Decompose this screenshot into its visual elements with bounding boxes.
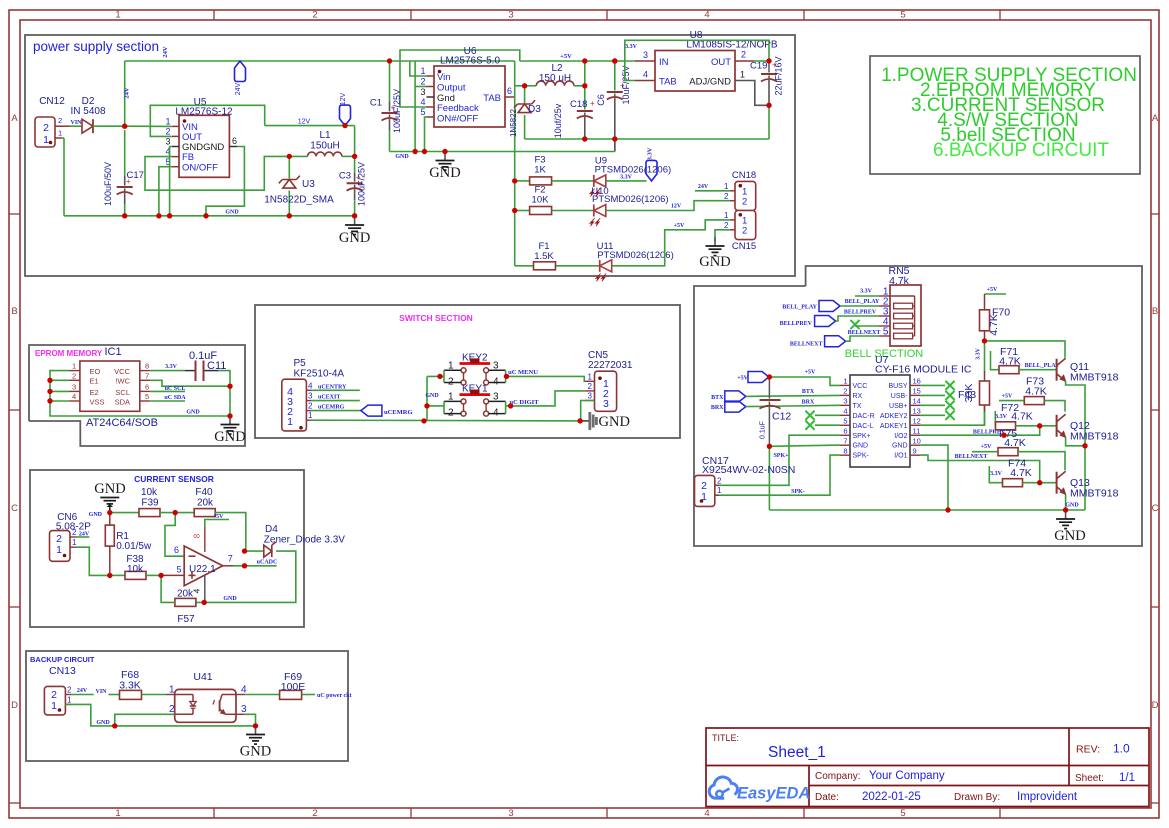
wire key2 left bbox=[427, 375, 444, 377]
svg-text:6: 6 bbox=[507, 86, 512, 96]
wire Q11 collector bbox=[985, 341, 1066, 358]
svg-text:!WC: !WC bbox=[115, 377, 130, 386]
fuse U11 PTSMD026 bbox=[596, 241, 674, 282]
label D2 bbox=[70, 96, 105, 117]
junction bbox=[227, 384, 232, 389]
svg-text:Improvident: Improvident bbox=[1017, 791, 1078, 803]
net flag BRX bbox=[711, 401, 746, 412]
wire gnd pin7 bbox=[769, 445, 840, 446]
svg-text:1: 1 bbox=[51, 700, 57, 712]
wire bbox=[606, 180, 647, 182]
svg-text:SPK-: SPK- bbox=[853, 453, 870, 460]
svg-text:BUSY: BUSY bbox=[888, 383, 907, 390]
wire bbox=[170, 147, 172, 216]
svg-text:GND: GND bbox=[96, 720, 110, 726]
svg-text:CY-F16 MODULE IC: CY-F16 MODULE IC bbox=[875, 364, 972, 376]
svg-text:16: 16 bbox=[913, 377, 921, 386]
svg-text:24V: 24V bbox=[124, 87, 131, 99]
svg-text:BELL_PLAY: BELL_PLAY bbox=[782, 305, 817, 311]
svg-text:3: 3 bbox=[508, 10, 513, 21]
svg-text:D3: D3 bbox=[528, 104, 541, 115]
inductor L1 bbox=[289, 130, 354, 156]
capacitor C18 bbox=[553, 88, 595, 139]
svg-text:uC DIGIT: uC DIGIT bbox=[509, 399, 539, 406]
svg-text:C1: C1 bbox=[370, 98, 382, 109]
svg-text:BTX: BTX bbox=[802, 389, 815, 395]
wire eprom pins tie bbox=[50, 371, 230, 416]
svg-text:20k: 20k bbox=[197, 498, 214, 509]
svg-text:+5V: +5V bbox=[987, 287, 998, 293]
wire U5 pin6 path bbox=[206, 147, 244, 216]
wire 12V to CN18 bbox=[606, 201, 730, 211]
svg-text:IN 5408: IN 5408 bbox=[70, 106, 105, 117]
svg-text:KF2510-4A: KF2510-4A bbox=[294, 369, 345, 380]
resistor F74 4.7K bbox=[1003, 458, 1032, 487]
svg-text:5: 5 bbox=[420, 107, 425, 117]
op-amp U22.1 bbox=[184, 546, 223, 586]
wire bbox=[515, 85, 525, 87]
wire pin7 bbox=[150, 380, 230, 386]
junction bbox=[1082, 443, 1087, 448]
svg-text:A: A bbox=[1152, 113, 1159, 124]
svg-text:15: 15 bbox=[913, 387, 921, 396]
wire bbox=[233, 565, 277, 567]
wire +5V to CN15 bbox=[612, 220, 730, 266]
wire key1 left bbox=[427, 405, 444, 407]
svg-text:10k: 10k bbox=[127, 564, 144, 575]
svg-text:7: 7 bbox=[843, 436, 847, 445]
svg-text:0.1uF: 0.1uF bbox=[760, 421, 767, 439]
label CN5 bbox=[588, 350, 633, 371]
junction bbox=[982, 338, 987, 343]
ground top bbox=[94, 481, 125, 513]
wire bbox=[580, 420, 589, 422]
wire bbox=[160, 512, 194, 514]
junction bbox=[612, 58, 617, 63]
wire bbox=[109, 694, 120, 696]
svg-text:F57: F57 bbox=[177, 614, 195, 625]
wire Q11 emitter bbox=[1066, 381, 1085, 510]
wire +5V F70 bbox=[985, 293, 1007, 295]
svg-text:GND: GND bbox=[429, 165, 460, 181]
svg-text:0.01/5w: 0.01/5w bbox=[116, 541, 152, 552]
svg-text:GND: GND bbox=[699, 254, 730, 270]
svg-text:L1: L1 bbox=[319, 130, 331, 141]
wire bbox=[50, 390, 70, 392]
wire bbox=[515, 180, 530, 182]
svg-text:2022-01-25: 2022-01-25 bbox=[862, 791, 921, 803]
wire output bbox=[223, 565, 233, 567]
svg-text:CURRENT SENSOR: CURRENT SENSOR bbox=[134, 474, 214, 484]
svg-text:uCEMRG: uCEMRG bbox=[384, 409, 413, 416]
svg-text:3: 3 bbox=[72, 382, 76, 391]
junction bbox=[1063, 507, 1068, 512]
wire 24V to CN18 bbox=[695, 190, 730, 192]
svg-text:MMBT918: MMBT918 bbox=[1070, 488, 1119, 500]
junction bbox=[437, 374, 442, 379]
svg-text:1N5822D_SMA: 1N5822D_SMA bbox=[264, 195, 334, 206]
svg-text:GND: GND bbox=[223, 596, 237, 602]
svg-text:3: 3 bbox=[493, 360, 499, 371]
svg-text:+5V: +5V bbox=[1002, 394, 1013, 400]
junction bbox=[156, 213, 161, 218]
svg-text:1: 1 bbox=[72, 362, 76, 371]
svg-text:7: 7 bbox=[228, 554, 233, 564]
wire IO2 BELLPREV bbox=[920, 426, 1040, 435]
IC U5 LM2576S-12 bbox=[165, 97, 237, 177]
resistor F75 4.7K bbox=[998, 428, 1026, 456]
wire bbox=[556, 265, 600, 267]
wire bbox=[768, 105, 770, 139]
svg-text:4.7K: 4.7K bbox=[1011, 410, 1033, 422]
wire bbox=[768, 446, 770, 510]
svg-text:4: 4 bbox=[493, 408, 499, 419]
svg-text:4.7K: 4.7K bbox=[1025, 386, 1047, 398]
op-amp power pins bbox=[193, 514, 230, 602]
capacitor C17 bbox=[103, 130, 144, 216]
svg-text:ON#/OFF: ON#/OFF bbox=[437, 113, 478, 124]
svg-text:150 uH: 150 uH bbox=[539, 73, 571, 84]
svg-text:EO: EO bbox=[90, 367, 101, 376]
junction bbox=[582, 58, 587, 63]
wire ADKEY1 to F43 bbox=[920, 405, 985, 425]
svg-text:F39: F39 bbox=[141, 498, 159, 509]
wire key2 right uC MENU bbox=[506, 376, 585, 381]
wire bbox=[354, 126, 356, 157]
wire bbox=[161, 575, 175, 602]
wire bbox=[245, 694, 279, 696]
diode D3 1N5822 bbox=[509, 86, 541, 139]
wire VIN bbox=[125, 125, 172, 127]
wire key1 right uC DIGIT bbox=[506, 391, 585, 406]
svg-text:IC1: IC1 bbox=[105, 346, 122, 358]
resistor F43 33K bbox=[958, 371, 990, 425]
svg-text:D: D bbox=[11, 700, 18, 711]
no-connect cross bbox=[945, 391, 954, 400]
svg-text:2: 2 bbox=[312, 808, 317, 819]
svg-text:2: 2 bbox=[308, 402, 313, 411]
wire bbox=[70, 125, 82, 127]
svg-text:IN: IN bbox=[659, 57, 669, 68]
IC U8 LM1085IS-12 bbox=[635, 30, 778, 91]
wire bbox=[245, 714, 255, 726]
svg-text:24V: 24V bbox=[79, 532, 90, 538]
resistor F3 1K bbox=[530, 155, 552, 185]
svg-text:1.5K: 1.5K bbox=[534, 251, 554, 262]
switch KEY1 bbox=[444, 384, 506, 419]
diode D2 bbox=[82, 119, 93, 133]
wire bbox=[846, 336, 879, 341]
svg-text:4: 4 bbox=[308, 381, 313, 390]
no-connect cross bbox=[805, 421, 814, 430]
svg-text:U22.1: U22.1 bbox=[189, 564, 216, 575]
wire bbox=[414, 61, 416, 152]
svg-text:3.3V: 3.3V bbox=[647, 147, 654, 160]
svg-text:3: 3 bbox=[308, 392, 313, 401]
wire bbox=[76, 536, 89, 538]
svg-text:6.BACKUP CIRCUIT: 6.BACKUP CIRCUIT bbox=[933, 140, 1109, 161]
svg-text:GND: GND bbox=[94, 481, 125, 497]
resistor F2 10K bbox=[530, 185, 552, 215]
junction bbox=[767, 374, 772, 379]
svg-text:1: 1 bbox=[72, 538, 77, 547]
svg-text:1: 1 bbox=[724, 211, 729, 220]
wire bottom loop bbox=[525, 138, 769, 140]
resistor F39 10k bbox=[139, 487, 160, 517]
svg-text:SPK-: SPK- bbox=[791, 489, 805, 495]
wire bbox=[515, 265, 533, 267]
svg-text:EPROM MEMORY: EPROM MEMORY bbox=[35, 349, 103, 358]
wire Q13 emitter bbox=[1065, 494, 1067, 510]
junction bbox=[122, 124, 127, 129]
svg-text:PTSMD026(1206): PTSMD026(1206) bbox=[592, 194, 669, 205]
svg-text:SWITCH SECTION: SWITCH SECTION bbox=[399, 313, 473, 323]
wire bbox=[142, 694, 166, 696]
wire SPK+ path bbox=[715, 435, 840, 485]
wire bell gnd rail bbox=[769, 509, 1085, 511]
svg-text:GND: GND bbox=[1065, 503, 1079, 509]
wire bbox=[400, 106, 427, 108]
junction bbox=[612, 58, 617, 63]
wire CN13 pin1 gnd bbox=[65, 704, 255, 726]
svg-text:1: 1 bbox=[56, 544, 62, 556]
wire bbox=[415, 86, 426, 88]
svg-text:2: 2 bbox=[843, 387, 847, 396]
IC U7 CY-F16 bbox=[840, 375, 921, 467]
svg-text:+5V: +5V bbox=[737, 376, 748, 382]
svg-text:Sheet_1: Sheet_1 bbox=[768, 744, 826, 761]
label U7 bbox=[875, 354, 972, 376]
junction bbox=[522, 83, 527, 88]
junction bbox=[512, 178, 517, 183]
svg-text:GND: GND bbox=[225, 210, 239, 216]
svg-text:1: 1 bbox=[115, 10, 120, 21]
wire bbox=[63, 138, 65, 216]
net flag uCEMRG bbox=[361, 405, 413, 416]
wire bbox=[110, 512, 140, 514]
junction bbox=[122, 213, 127, 218]
wire uCEMRG bbox=[311, 410, 361, 412]
svg-text:3: 3 bbox=[643, 50, 648, 60]
svg-text:GND: GND bbox=[1054, 528, 1085, 544]
svg-text:Company:: Company: bbox=[815, 771, 861, 782]
backup circuit box bbox=[26, 651, 348, 761]
svg-text:EasyEDA: EasyEDA bbox=[737, 785, 810, 803]
svg-text:VCC: VCC bbox=[114, 367, 130, 376]
svg-text:3: 3 bbox=[493, 391, 499, 402]
current sensor box bbox=[30, 470, 304, 627]
svg-text:C6: C6 bbox=[596, 94, 606, 106]
junction bbox=[422, 149, 427, 154]
no-connect cross bbox=[850, 320, 859, 329]
transistor Q12 MMBT918 bbox=[1057, 414, 1119, 442]
net flag +5V bbox=[737, 372, 769, 383]
wire bbox=[552, 210, 594, 212]
svg-text:14: 14 bbox=[913, 397, 921, 406]
svg-text:3.3V: 3.3V bbox=[625, 44, 638, 50]
label RN5 bbox=[888, 265, 909, 287]
wire bbox=[93, 125, 125, 127]
junction bbox=[766, 103, 771, 108]
svg-text:22272031: 22272031 bbox=[588, 360, 633, 371]
ground bbox=[229, 416, 231, 425]
wire bbox=[552, 180, 594, 182]
wire uCENTRY bbox=[311, 389, 360, 391]
wire bbox=[920, 394, 945, 396]
junction bbox=[387, 58, 392, 63]
svg-text:Output: Output bbox=[437, 83, 466, 94]
svg-text:1: 1 bbox=[308, 411, 313, 420]
svg-text:MMBT918: MMBT918 bbox=[1070, 431, 1119, 443]
bell section box bbox=[694, 266, 1142, 546]
svg-text:100E: 100E bbox=[281, 681, 306, 693]
wire bbox=[584, 61, 586, 88]
svg-text:100uF/50V: 100uF/50V bbox=[103, 162, 113, 206]
svg-text:10: 10 bbox=[913, 436, 921, 445]
svg-text:TAB: TAB bbox=[483, 93, 501, 104]
svg-text:Date:: Date: bbox=[815, 792, 839, 803]
svg-text:1: 1 bbox=[67, 695, 72, 704]
svg-text:VSS: VSS bbox=[90, 397, 105, 406]
wire bbox=[515, 210, 530, 212]
wire bbox=[71, 694, 94, 696]
wire bbox=[1016, 425, 1057, 427]
svg-text:24V: 24V bbox=[698, 184, 709, 190]
junction bbox=[508, 403, 513, 408]
svg-text:TITLE:: TITLE: bbox=[712, 733, 739, 743]
svg-text:3.3V: 3.3V bbox=[976, 347, 982, 360]
svg-text:2: 2 bbox=[588, 382, 593, 391]
svg-text:1: 1 bbox=[115, 808, 120, 819]
svg-text:I/O1: I/O1 bbox=[894, 453, 907, 460]
svg-text:BELL_PLAY: BELL_PLAY bbox=[845, 299, 880, 305]
svg-text:SPK+: SPK+ bbox=[773, 453, 789, 459]
net flag BELLNEXT bbox=[790, 336, 846, 348]
svg-text:2: 2 bbox=[420, 77, 425, 87]
svg-text:1: 1 bbox=[165, 117, 170, 127]
svg-text:SDA: SDA bbox=[115, 397, 130, 406]
svg-text:ADKEY1: ADKEY1 bbox=[880, 423, 908, 430]
svg-text:2: 2 bbox=[742, 226, 747, 237]
junction bbox=[242, 563, 247, 568]
diode U3 1N5822D bbox=[264, 156, 334, 215]
junction bbox=[1037, 423, 1042, 428]
svg-text:GND: GND bbox=[395, 154, 409, 160]
svg-text:+5V: +5V bbox=[560, 53, 572, 60]
svg-text:13: 13 bbox=[913, 407, 921, 416]
svg-text:C: C bbox=[11, 503, 18, 514]
svg-text:+: + bbox=[590, 99, 595, 108]
notes box bbox=[870, 56, 1140, 174]
wire P5 pin1 rail bbox=[311, 419, 580, 422]
wire bbox=[215, 513, 246, 552]
wire CN15 gnd bbox=[715, 230, 730, 242]
junction bbox=[287, 154, 292, 159]
svg-text:4: 4 bbox=[72, 392, 76, 401]
svg-text:A: A bbox=[11, 113, 18, 124]
EasyEDA logo bbox=[709, 777, 810, 803]
wire bbox=[425, 117, 427, 152]
svg-text:LM2576S-5.0: LM2576S-5.0 bbox=[440, 56, 500, 67]
svg-text:uCEXIT: uCEXIT bbox=[318, 395, 340, 401]
wire key2 gnd drop bbox=[426, 376, 428, 421]
svg-text:12V: 12V bbox=[298, 119, 311, 126]
junction bbox=[202, 600, 207, 605]
svg-text:1: 1 bbox=[701, 491, 707, 503]
svg-text:3.3K: 3.3K bbox=[119, 680, 141, 692]
svg-text:3: 3 bbox=[588, 392, 593, 401]
svg-text:Drawn By:: Drawn By: bbox=[954, 792, 1000, 803]
svg-text:150uH: 150uH bbox=[310, 141, 339, 152]
svg-text:3.3V: 3.3V bbox=[620, 175, 633, 181]
wire 24V vertical bbox=[124, 61, 126, 126]
wire bbox=[110, 574, 125, 576]
svg-text:uC SDA: uC SDA bbox=[164, 395, 186, 401]
transistor Q13 MMBT918 bbox=[1057, 471, 1119, 499]
junction bbox=[352, 154, 357, 159]
svg-text:ADKEY2: ADKEY2 bbox=[880, 413, 908, 420]
optocoupler U41 bbox=[175, 671, 236, 722]
svg-text:uCADC: uCADC bbox=[257, 560, 278, 566]
fuse U9 PTSMD026 bbox=[590, 156, 672, 197]
svg-text:1: 1 bbox=[740, 70, 745, 80]
connector CN18 bbox=[724, 170, 756, 211]
wire bbox=[920, 414, 945, 416]
wire F71 left bbox=[991, 351, 1000, 370]
wire +5V to VCC bbox=[769, 377, 840, 385]
svg-text:2: 2 bbox=[448, 377, 454, 388]
svg-text:DAC-L: DAC-L bbox=[853, 423, 874, 430]
wire bbox=[920, 384, 945, 386]
svg-text:U41: U41 bbox=[193, 671, 212, 683]
svg-text:BRX: BRX bbox=[802, 400, 815, 406]
svg-text:3.3V: 3.3V bbox=[860, 289, 873, 295]
svg-text:2: 2 bbox=[169, 704, 175, 715]
wire bbox=[161, 574, 184, 576]
svg-text:uC SCL: uC SCL bbox=[165, 386, 186, 392]
connector CN15 bbox=[724, 211, 756, 253]
wire U5 FB loop bbox=[145, 156, 289, 190]
svg-text:8: 8 bbox=[145, 362, 149, 371]
wire bbox=[984, 341, 986, 372]
ground bbox=[255, 726, 257, 735]
svg-text:ON/OFF: ON/OFF bbox=[182, 162, 218, 173]
ground bbox=[1054, 510, 1085, 544]
wire U5 out loop bbox=[150, 105, 264, 136]
svg-text:SPK+: SPK+ bbox=[853, 433, 871, 440]
svg-text:BRX: BRX bbox=[711, 405, 724, 411]
svg-text:C: C bbox=[1152, 503, 1159, 514]
svg-text:B: B bbox=[11, 306, 17, 317]
svg-text:1K: 1K bbox=[534, 165, 546, 176]
svg-text:6: 6 bbox=[232, 136, 237, 146]
svg-text:2: 2 bbox=[72, 371, 76, 380]
wire bbox=[840, 305, 879, 307]
svg-text:TAB: TAB bbox=[659, 77, 677, 88]
svg-text:3: 3 bbox=[508, 808, 513, 819]
junction bbox=[582, 136, 587, 141]
junction bbox=[107, 573, 112, 578]
svg-text:TX: TX bbox=[853, 403, 862, 410]
svg-text:9: 9 bbox=[913, 446, 917, 455]
wire pin5 uC SDA bbox=[150, 400, 185, 402]
wire pin8 3.3V bbox=[150, 370, 185, 372]
svg-text:10uf/25v: 10uf/25v bbox=[553, 103, 563, 138]
junction bbox=[227, 413, 232, 418]
svg-text:4.7K: 4.7K bbox=[1004, 437, 1026, 449]
svg-text:+5V: +5V bbox=[805, 370, 816, 376]
svg-text:5: 5 bbox=[843, 416, 847, 425]
